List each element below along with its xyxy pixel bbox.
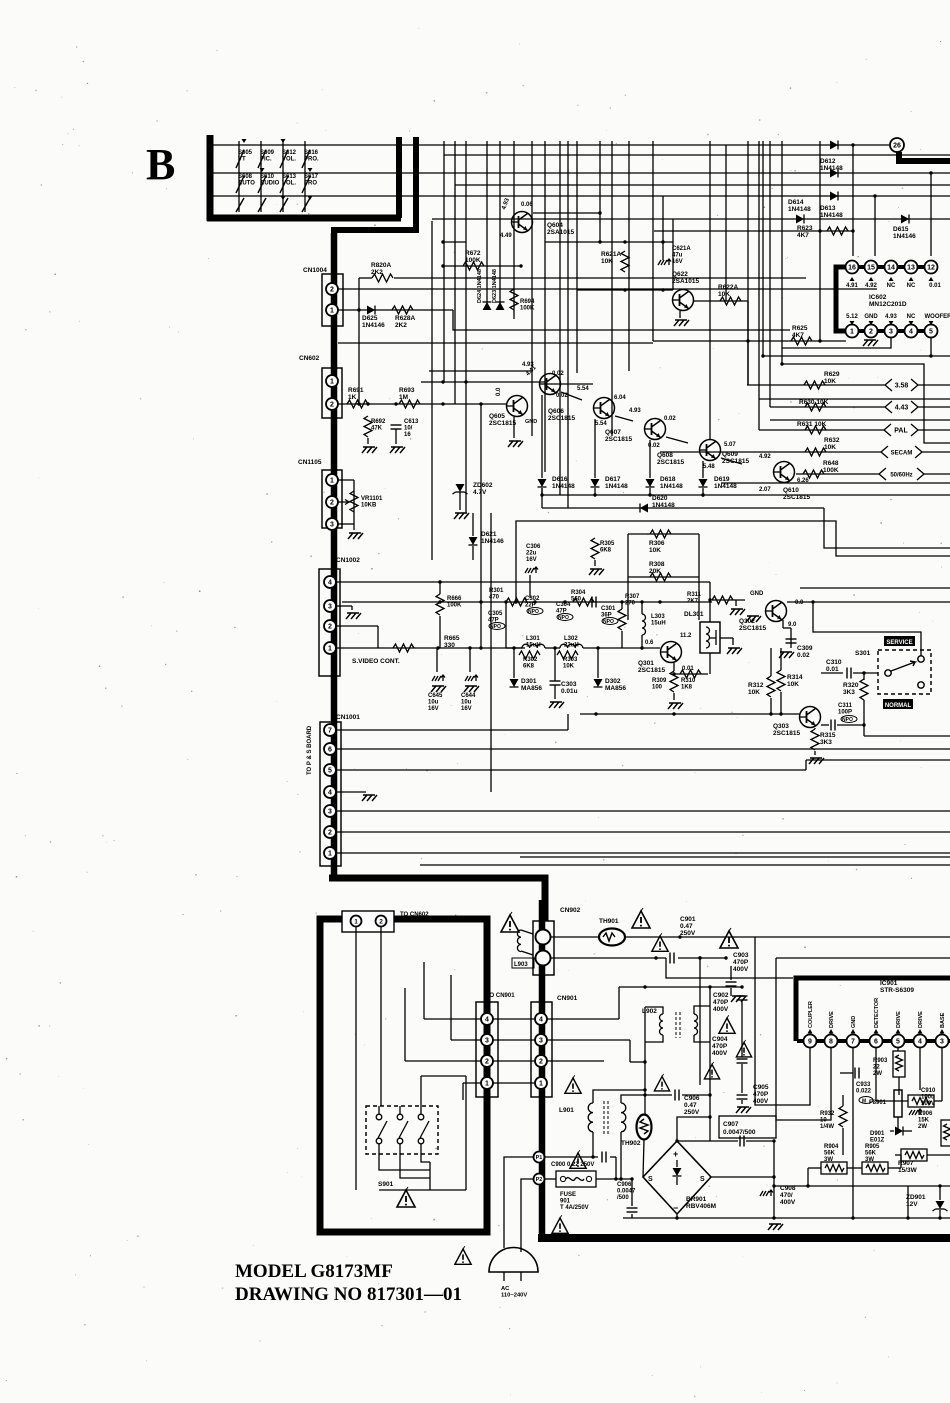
svg-text:0.6: 0.6 — [645, 640, 654, 646]
svg-text:100K: 100K — [447, 603, 462, 609]
wire row1 — [213, 144, 889, 146]
IC901 pin 9 name — [808, 1001, 815, 1033]
wire y588 — [800, 587, 950, 589]
CN1001 pin 5 — [324, 764, 336, 776]
switch S301 — [855, 650, 931, 694]
wire R820A row — [359, 277, 806, 279]
capacitor C910 — [909, 1088, 936, 1115]
CN901 pin2 wire right — [547, 1060, 604, 1062]
svg-text:4: 4 — [328, 580, 332, 587]
resistor R311 — [687, 592, 745, 615]
resistor R630 — [770, 399, 885, 411]
svg-text:IC901: IC901 — [880, 980, 898, 987]
svg-text:P1: P1 — [536, 1155, 543, 1161]
svg-text:C306: C306 — [526, 544, 541, 550]
resistor R308 — [628, 561, 699, 581]
svg-text:C905: C905 — [753, 1084, 769, 1091]
svg-text:D621: D621 — [481, 531, 497, 538]
svg-text:100K: 100K — [465, 257, 481, 264]
svg-text:1: 1 — [539, 1081, 543, 1088]
capacitor C904 — [712, 1036, 748, 1093]
svg-text:SECAM: SECAM — [891, 451, 913, 457]
svg-text:1K: 1K — [348, 394, 357, 401]
switch box left thick edge — [207, 135, 214, 221]
capacitor C301 — [592, 597, 618, 626]
CN901 pin 1 — [535, 1077, 547, 1089]
wire pin7 drop — [852, 1047, 854, 1218]
svg-text:COUPLER: COUPLER — [808, 1001, 814, 1028]
thick elbow to power — [329, 878, 545, 921]
switch S605 label — [238, 150, 253, 163]
svg-text:2: 2 — [485, 1059, 489, 1066]
power box bottom thick edge — [538, 1234, 950, 1242]
svg-text:0.0047: 0.0047 — [617, 1189, 636, 1195]
svg-text:12V: 12V — [906, 1201, 918, 1208]
svg-text:R622A: R622A — [718, 284, 739, 291]
svg-text:10K: 10K — [649, 547, 661, 554]
IC901 pin 3 — [936, 1035, 949, 1048]
svg-text:MN12C201D: MN12C201D — [869, 301, 907, 308]
svg-text:15/3W: 15/3W — [898, 1167, 918, 1174]
wire row2 — [213, 172, 950, 174]
svg-text:R906: R906 — [918, 1111, 933, 1117]
svg-text:0.01: 0.01 — [682, 666, 694, 672]
svg-text:1N4148: 1N4148 — [652, 502, 675, 509]
svg-text:4: 4 — [918, 1039, 922, 1046]
svg-text:NPO: NPO — [528, 609, 539, 615]
IC901 pin 5 — [892, 1035, 905, 1048]
CN1105 pin 3 — [326, 518, 338, 530]
svg-text:SERVICE: SERVICE — [886, 640, 912, 646]
svg-text:2K2: 2K2 — [395, 322, 407, 329]
svg-text:10K: 10K — [787, 681, 799, 688]
capacitor C304 — [556, 602, 573, 621]
svg-text:D617: D617 — [605, 476, 621, 483]
Q622 ground — [674, 311, 689, 326]
capacitor C311 — [821, 703, 864, 731]
svg-text:ZD602: ZD602 — [473, 482, 493, 489]
svg-text:3W: 3W — [865, 1157, 874, 1163]
svg-text:D613: D613 — [820, 205, 836, 212]
svg-text:PAL: PAL — [894, 428, 908, 435]
connector CN1001 — [320, 714, 360, 866]
CN901 link wires — [493, 1019, 535, 1083]
CN602 pin2 wire — [338, 402, 506, 405]
svg-text:2: 2 — [328, 624, 332, 631]
vertical wire x432 — [431, 221, 433, 560]
svg-text:4.92: 4.92 — [865, 283, 877, 289]
transistor Q607 — [577, 386, 632, 443]
svg-text:4: 4 — [909, 329, 913, 336]
staircase wire 2 — [514, 521, 950, 604]
svg-text:E01Z: E01Z — [870, 1138, 885, 1144]
IC901 pin 5 name — [896, 1011, 903, 1034]
CN1001 pin7 wire — [336, 714, 568, 730]
svg-text:6K8: 6K8 — [523, 664, 535, 670]
svg-text:TH901: TH901 — [599, 918, 619, 925]
svg-text:330: 330 — [444, 642, 455, 649]
diode D624 — [477, 269, 492, 310]
svg-text:DRIVE: DRIVE — [918, 1011, 924, 1028]
svg-text:R628A: R628A — [395, 315, 416, 322]
svg-text:4.93: 4.93 — [629, 408, 641, 414]
IC602 pin 2 — [865, 325, 878, 338]
svg-text:1N4148: 1N4148 — [605, 483, 628, 490]
thick elbow to CN1004 — [334, 230, 419, 276]
wire pin16 drop — [851, 143, 854, 256]
svg-text:4.91: 4.91 — [846, 283, 858, 289]
svg-text:2: 2 — [328, 830, 332, 837]
svg-text:2: 2 — [330, 287, 334, 294]
nest wire 2 — [776, 958, 950, 1120]
svg-text:2: 2 — [539, 1059, 543, 1066]
resistor R691 — [347, 387, 368, 408]
vertical x700 — [698, 956, 701, 1085]
svg-text:15: 15 — [867, 265, 875, 272]
warning triangle 2 — [720, 928, 738, 948]
svg-text:Q608: Q608 — [657, 452, 673, 459]
svg-text:Q302: Q302 — [739, 618, 755, 625]
CN1004 pin 1 — [326, 304, 338, 316]
CN1001 pin1 wire — [336, 852, 950, 854]
IC602 pin5 drop — [929, 337, 932, 358]
IC901 pin 8 — [825, 1035, 838, 1048]
TO CN901 pin 2 — [481, 1055, 493, 1067]
resistor R693 — [399, 387, 420, 408]
svg-text:VOL.: VOL. — [282, 157, 296, 163]
svg-text:470P: 470P — [733, 959, 749, 966]
svg-text:250V: 250V — [680, 930, 696, 937]
svg-text:R666: R666 — [447, 596, 462, 602]
svg-text:L901: L901 — [559, 1107, 574, 1114]
svg-text:Q606: Q606 — [548, 408, 564, 415]
svg-text:R665: R665 — [444, 635, 460, 642]
power thick bus — [539, 900, 546, 1238]
wire row2b — [444, 154, 950, 156]
CN1001 pin3 wire — [336, 810, 950, 812]
resistor R307 — [618, 594, 640, 648]
Q302 out wire — [787, 601, 950, 603]
capacitor C901 — [670, 916, 728, 964]
svg-text:L303: L303 — [651, 614, 665, 620]
svg-text:C933: C933 — [856, 1082, 871, 1088]
svg-text:CN1105: CN1105 — [298, 459, 322, 466]
vertical wire x673 — [672, 219, 674, 290]
svg-text:S.VIDEO CONT.: S.VIDEO CONT. — [352, 658, 400, 665]
diode D614 — [788, 199, 811, 224]
degauss wires — [356, 927, 466, 1190]
CN1001 pin5 wire — [336, 760, 950, 770]
resistor R666 — [436, 580, 462, 648]
switch S613 label — [282, 174, 297, 187]
svg-text:TO CN602: TO CN602 — [400, 912, 429, 918]
wire 4.93 row — [429, 362, 534, 371]
degauss box — [320, 919, 487, 1232]
CN1004 pin2 wire — [338, 288, 877, 290]
svg-text:2SC1815: 2SC1815 — [548, 415, 575, 422]
transistor Q303 — [773, 707, 821, 738]
warning triangle S901 — [397, 1187, 415, 1207]
capacitor C306 — [525, 544, 541, 598]
pin P2 — [534, 1174, 545, 1185]
node 26 — [890, 138, 950, 161]
svg-text:/500: /500 — [617, 1195, 629, 1201]
svg-text:D302: D302 — [605, 678, 621, 685]
vertical wire x514 — [513, 141, 515, 319]
svg-text:GND: GND — [864, 314, 878, 320]
svg-text:AUTO: AUTO — [238, 181, 255, 187]
svg-text:3: 3 — [539, 1038, 543, 1045]
svg-text:R311: R311 — [687, 592, 702, 598]
svg-text:R629: R629 — [824, 371, 840, 378]
svg-text:C310: C310 — [826, 659, 842, 666]
capacitor C309 — [779, 628, 813, 659]
diode D620 — [540, 488, 824, 513]
svg-text:D618: D618 — [660, 476, 676, 483]
svg-text:15uH: 15uH — [651, 621, 666, 627]
svg-text:22u: 22u — [526, 551, 537, 557]
diode D618 — [646, 440, 684, 495]
wire diode bottoms — [542, 493, 950, 496]
connector TO CN602 — [342, 911, 429, 932]
bridge BR901 — [643, 1141, 716, 1214]
resistor R672 — [441, 250, 522, 270]
switch box bottom thick edge — [207, 215, 401, 222]
svg-text:GND: GND — [851, 1016, 857, 1028]
CN1001 pin6 wire — [336, 748, 950, 750]
svg-text:M: M — [862, 1099, 866, 1105]
svg-text:3: 3 — [485, 1038, 489, 1045]
svg-text:3K3: 3K3 — [843, 689, 855, 696]
connector CN901 — [531, 995, 578, 1097]
capacitor C906b — [617, 1177, 638, 1218]
vertical wire x748 — [747, 141, 749, 385]
svg-text:0.01: 0.01 — [929, 283, 941, 289]
warning triangle 7 — [654, 1074, 669, 1091]
svg-text:400V: 400V — [713, 1006, 729, 1013]
svg-text:1: 1 — [354, 918, 358, 925]
capacitor C903 — [726, 952, 749, 1002]
svg-text:GND: GND — [750, 591, 764, 597]
nest wire 3 — [666, 958, 793, 978]
CN1001 pin 2 — [324, 826, 336, 838]
inductor L302 — [545, 636, 600, 649]
switch S612 blade — [280, 150, 288, 212]
q chain wires — [545, 384, 742, 464]
svg-text:10K: 10K — [824, 378, 836, 385]
svg-text:0.47: 0.47 — [684, 1102, 697, 1109]
svg-text:D614: D614 — [788, 199, 804, 206]
vertical wire x487 — [486, 141, 488, 306]
wire base row — [421, 380, 545, 383]
svg-text:3.58: 3.58 — [895, 383, 909, 390]
label PAL — [884, 424, 950, 436]
svg-text:S613: S613 — [282, 174, 297, 180]
svg-text:10/: 10/ — [404, 426, 413, 432]
svg-text:6: 6 — [874, 1039, 878, 1046]
video node wires — [506, 602, 660, 681]
svg-text:16: 16 — [848, 265, 856, 272]
svg-text:R694: R694 — [520, 299, 535, 305]
svg-text:9.0: 9.0 — [788, 622, 797, 628]
svg-text:NC: NC — [907, 283, 916, 289]
svg-text:S: S — [648, 1176, 653, 1183]
svg-text:R304: R304 — [571, 590, 586, 596]
diode D301 — [510, 678, 543, 692]
svg-text:1/4W: 1/4W — [820, 1124, 834, 1130]
label B — [146, 140, 175, 189]
switch S616 blade — [302, 150, 310, 212]
svg-text:16V: 16V — [526, 557, 537, 563]
diode D615 — [893, 215, 916, 241]
svg-text:10K: 10K — [563, 664, 575, 670]
svg-text:470/: 470/ — [780, 1192, 793, 1199]
svg-text:R904: R904 — [824, 1144, 839, 1150]
fuse F8901 — [869, 1077, 902, 1130]
vertical wire x663 — [662, 196, 664, 260]
wire r621a bottom — [577, 288, 673, 291]
IC901 pin 3 name — [940, 1012, 947, 1033]
IC901 pin 6 — [870, 1035, 883, 1048]
svg-text:1N4146: 1N4146 — [893, 233, 916, 240]
resistor R315 — [809, 728, 836, 764]
svg-text:R305: R305 — [600, 541, 615, 547]
svg-text:R903: R903 — [873, 1058, 888, 1064]
svg-text:Q604: Q604 — [547, 222, 563, 229]
svg-text:1N4148: 1N4148 — [714, 483, 737, 490]
connector TO CN901 — [476, 993, 515, 1097]
svg-text:0.022: 0.022 — [856, 1089, 872, 1095]
capacitor C906 — [645, 1090, 710, 1117]
svg-text:R310: R310 — [681, 678, 696, 684]
svg-text:10K: 10K — [824, 444, 836, 451]
IC602 pin 12 — [925, 261, 938, 274]
svg-text:R648: R648 — [823, 460, 839, 467]
svg-text:1: 1 — [330, 379, 334, 386]
IC901 pin 7 — [847, 1035, 860, 1048]
svg-text:C304: C304 — [556, 602, 571, 608]
svg-text:2K2: 2K2 — [371, 269, 383, 276]
wire cn902a — [551, 935, 682, 938]
resistor R820A — [359, 262, 393, 404]
CN602 pin 1 — [326, 375, 338, 387]
long wire pair — [420, 857, 950, 865]
svg-text:1: 1 — [850, 329, 854, 336]
svg-text:S901: S901 — [378, 1181, 394, 1188]
svg-text:R630 10K: R630 10K — [799, 399, 829, 406]
TO CN901 pin 3 — [481, 1034, 493, 1046]
svg-text:S609: S609 — [260, 150, 275, 156]
label 50/60Hz — [879, 468, 950, 480]
svg-text:R691: R691 — [348, 387, 364, 394]
svg-text:100K: 100K — [823, 467, 839, 474]
svg-text:100: 100 — [652, 685, 663, 691]
wire cn902b — [551, 956, 666, 959]
switch S610 label — [260, 174, 280, 187]
zener ZD602 — [453, 482, 493, 519]
svg-text:4.43: 4.43 — [895, 405, 909, 412]
svg-text:NPO: NPO — [603, 619, 614, 625]
IC602 pin 3 — [885, 325, 898, 338]
CN1105 pin 1 — [326, 474, 338, 486]
wire elbow — [453, 310, 790, 330]
svg-text:VT: VT — [238, 157, 246, 163]
svg-text:6.04: 6.04 — [614, 395, 626, 401]
svg-text:DRIVE: DRIVE — [829, 1011, 835, 1028]
capacitor C902 — [713, 992, 748, 1057]
CN1002 pin 1 — [324, 642, 336, 654]
svg-text:1N4146: 1N4146 — [362, 322, 385, 329]
svg-text:50/60Hz: 50/60Hz — [890, 473, 912, 479]
svg-text:C621A: C621A — [672, 246, 691, 252]
svg-text:470P: 470P — [753, 1091, 769, 1098]
svg-text:13: 13 — [907, 265, 915, 272]
CN1004 pin1 wire — [338, 308, 453, 311]
svg-text:C901: C901 — [680, 916, 696, 923]
warning triangle AC — [455, 1246, 471, 1264]
svg-text:PRO: PRO — [304, 181, 317, 187]
power rail 1186 — [772, 1184, 950, 1187]
inductor L903 — [512, 930, 534, 968]
svg-text:D612: D612 — [820, 158, 836, 165]
resistor R623 — [654, 225, 853, 239]
connector CN1105 — [298, 459, 342, 528]
IC602 pin 16 — [846, 261, 859, 274]
svg-text:20K: 20K — [649, 568, 661, 575]
connector CN902 — [533, 907, 581, 975]
svg-text:1N4148: 1N4148 — [660, 483, 683, 490]
switch S605 blade — [236, 150, 244, 212]
svg-text:MODEL G8173MF: MODEL G8173MF — [235, 1261, 393, 1282]
transistor Q608 — [629, 408, 684, 466]
IC901 pin bus — [797, 1039, 950, 1043]
IC602 label — [869, 294, 907, 308]
svg-text:TO CN901: TO CN901 — [486, 993, 515, 999]
IC901 pin 6 name — [874, 998, 881, 1034]
CN1002 pin 2 — [324, 620, 336, 632]
vertical wire x600 — [599, 141, 601, 242]
thermistor TH902 — [621, 1115, 652, 1148]
cap C644 — [461, 648, 479, 712]
warning triangle 5 — [736, 1040, 751, 1057]
resistor R320 — [843, 679, 950, 736]
svg-text:0.02: 0.02 — [797, 652, 810, 659]
svg-text:STR-S6309: STR-S6309 — [880, 987, 914, 994]
L901 wires — [591, 1090, 645, 1181]
resistor R692 — [362, 416, 386, 453]
switch S609 blade — [258, 150, 266, 212]
warning triangle 8 — [565, 1075, 581, 1093]
wire r622a drop — [747, 301, 749, 385]
svg-text:470P: 470P — [713, 999, 729, 1006]
warning triangle 4 — [719, 1015, 735, 1033]
svg-text:TO P & S BOARD: TO P & S BOARD — [307, 725, 313, 775]
CN1001 pin 7 — [324, 724, 336, 736]
resistor R314 — [777, 648, 803, 714]
svg-text:100P: 100P — [838, 710, 852, 716]
svg-text:5: 5 — [896, 1039, 900, 1046]
resistor R625 — [653, 325, 846, 345]
CN901 pin 2 — [535, 1055, 547, 1067]
ground under IC602 pin2 — [863, 340, 878, 346]
DL301 wires — [708, 598, 711, 674]
CN602 pin 2 — [326, 398, 338, 410]
svg-text:D620: D620 — [652, 495, 668, 502]
resistor R906 — [918, 1111, 950, 1146]
tag SERVICE — [884, 636, 915, 646]
IC602 top pin values — [846, 283, 941, 289]
svg-text:NC: NC — [907, 314, 916, 320]
